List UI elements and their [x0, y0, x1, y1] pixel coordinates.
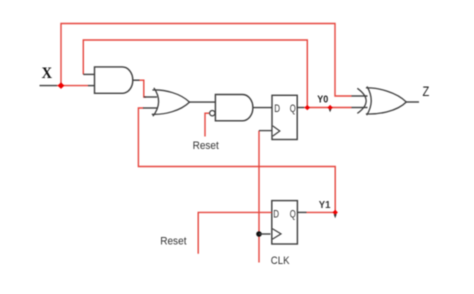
- svg-text:D: D: [274, 103, 280, 115]
- wire: Q1 output black stub: [297, 107, 304, 109]
- wire: U3 output -> FF1 D input: [253, 107, 272, 109]
- wire: AND1 lower input black stub: [88, 85, 95, 87]
- svg-text:Y0: Y0: [317, 94, 328, 105]
- wire: inner feedback Y0 -> AND1 top input: [83, 40, 307, 108]
- node diamond Y0 at Q1 output: [305, 105, 310, 110]
- node diamond Y0 second: [327, 105, 332, 110]
- XOR gate U6 input side extra arc: [357, 88, 366, 113]
- svg-text:Q: Q: [290, 103, 296, 115]
- svg-text:Z: Z: [423, 84, 430, 99]
- svg-text:Reset: Reset: [193, 140, 220, 152]
- junction dot at FF2 clock tap: [256, 231, 262, 237]
- wire: AND1 top input black stub: [83, 73, 95, 75]
- OR gate U2 concave input edge: [153, 88, 159, 116]
- wire: XOR top input black stub: [352, 95, 368, 97]
- wire: AND1 output -> OR top input (red): [140, 80, 147, 97]
- svg-text:D: D: [273, 209, 279, 221]
- wire: OR top input black stub: [144, 96, 157, 98]
- wire: XOR bottom input black stub: [352, 107, 368, 109]
- svg-text:CLK: CLK: [271, 255, 290, 267]
- node: X junction diamond: [58, 82, 65, 89]
- wire: Reset2 -> FF2 D input: [198, 212, 272, 253]
- svg-text:Reset: Reset: [160, 236, 187, 248]
- wire: Y0 net red run to XOR bottom input: [304, 107, 352, 109]
- wire: CLK net vertical + stub to U4 clock: [258, 131, 260, 263]
- svg-text:Y1: Y1: [319, 199, 331, 211]
- wire: Reset1 red wire to bubble: [205, 113, 209, 136]
- AND gate U3: [215, 95, 253, 121]
- wire: OR bottom input black stub: [143, 107, 157, 109]
- wire: outer feedback X -> XOR top input: [61, 24, 352, 97]
- wire: Y1 feedback -> OR bottom input (red long path): [138, 108, 335, 212]
- U5 clock triangle: [273, 229, 282, 239]
- wire: dot -> FF2 clock black stub: [259, 233, 271, 235]
- wire: X red segment to AND1: [57, 85, 88, 87]
- wire: Q2 output red to Y1 node: [307, 211, 336, 213]
- U4 clock triangle: [273, 126, 280, 136]
- D flip-flop U5 body: [272, 201, 298, 244]
- wire: OR output -> NAND input: [190, 101, 216, 103]
- svg-text:Q: Q: [290, 209, 296, 221]
- node diamond Y1: [333, 210, 338, 215]
- wire: XOR output: [406, 101, 419, 103]
- XOR gate U6 body: [366, 88, 406, 114]
- D flip-flop U4 body: [272, 95, 297, 139]
- OR gate U2: [152, 90, 190, 114]
- wire: black stub into U4 clock pin: [259, 130, 272, 132]
- svg-text:X: X: [42, 65, 53, 82]
- XOR U6 concave input edge: [367, 87, 372, 116]
- inverter bubble on U3 lower input: [210, 111, 215, 116]
- wire: X input black stub: [40, 85, 58, 87]
- wire: AND1 output black stub: [133, 79, 140, 81]
- AND gate U1: [95, 67, 133, 93]
- wire: Q2 output black stub: [297, 211, 306, 213]
